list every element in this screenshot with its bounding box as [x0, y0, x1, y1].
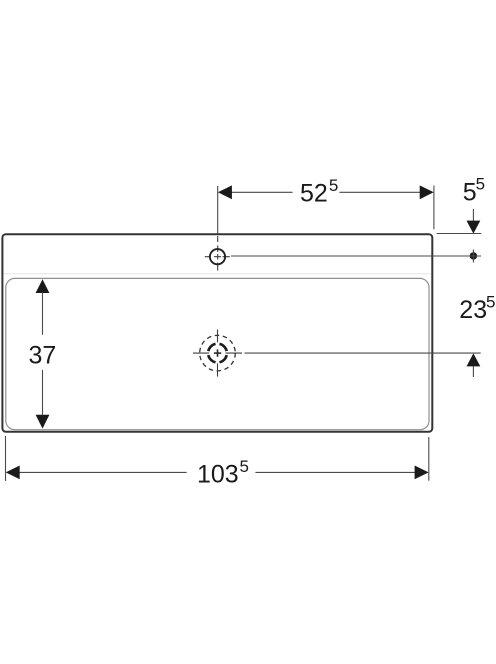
- svg-text:5: 5: [486, 293, 495, 312]
- svg-text:5: 5: [476, 175, 485, 194]
- svg-text:5: 5: [329, 176, 338, 195]
- svg-text:52: 52: [300, 180, 328, 208]
- svg-text:23: 23: [459, 296, 487, 324]
- svg-text:37: 37: [29, 342, 57, 370]
- svg-text:103: 103: [197, 461, 239, 489]
- svg-text:5: 5: [240, 457, 249, 476]
